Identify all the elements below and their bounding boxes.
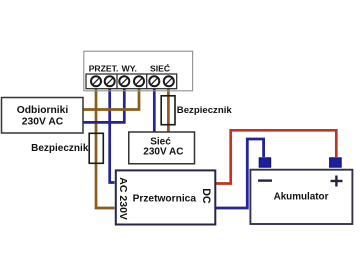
wire N blue WY to Odbiorniki <box>83 85 124 122</box>
screw terminal 4 <box>134 76 144 86</box>
symbol plus <box>331 176 343 187</box>
box Siec 230V AC <box>129 132 195 164</box>
terminal strip inner box <box>86 74 177 89</box>
svg-text:Odbiorniki: Odbiorniki <box>17 105 69 116</box>
svg-text:Przetwornica: Przetwornica <box>133 193 197 204</box>
symbol minus <box>258 179 272 181</box>
wire DC- blue converter to battery <box>216 139 264 208</box>
wire L brown PRZET to converter <box>96 85 115 208</box>
box Przetwornica (converter) <box>116 170 216 224</box>
box Akumulator (battery) <box>250 170 352 224</box>
battery terminal minus <box>259 158 271 167</box>
wire L brown SIEC through fuse to mains box <box>167 85 170 133</box>
terminal strip divider 1 <box>116 74 118 89</box>
svg-text:DC: DC <box>200 188 212 204</box>
svg-text:WY.: WY. <box>122 63 137 73</box>
wire L brown WY to Odbiorniki <box>83 85 139 110</box>
wire N blue PRZET to converter <box>110 85 115 183</box>
screw terminal 3 <box>119 76 129 86</box>
screw terminal 5 <box>149 76 159 86</box>
battery terminal plus <box>330 158 342 167</box>
fuse F1 (left) <box>89 133 103 163</box>
fuse F2 (right) <box>161 96 175 125</box>
wire DC+ red converter to battery <box>216 130 336 183</box>
screw terminal 6 <box>164 76 174 86</box>
screw terminal 1 <box>91 76 101 86</box>
svg-text:SIEĆ: SIEĆ <box>150 62 170 73</box>
svg-text:Bezpiecznik: Bezpiecznik <box>31 143 89 154</box>
terminal strip divider 2 <box>146 74 148 89</box>
svg-text:230V AC: 230V AC <box>22 116 64 127</box>
svg-text:PRZET.: PRZET. <box>89 63 119 73</box>
wire N blue SIEC to mains box <box>153 85 156 133</box>
terminal block outer box <box>84 51 193 91</box>
screw terminal 2 <box>105 76 115 86</box>
svg-text:Akumulator: Akumulator <box>274 191 329 202</box>
svg-text:AC 230V: AC 230V <box>117 177 129 220</box>
svg-text:230V AC: 230V AC <box>143 146 183 157</box>
box Odbiorniki 230V AC <box>2 98 84 134</box>
svg-text:Bezpiecznik: Bezpiecznik <box>177 105 233 116</box>
